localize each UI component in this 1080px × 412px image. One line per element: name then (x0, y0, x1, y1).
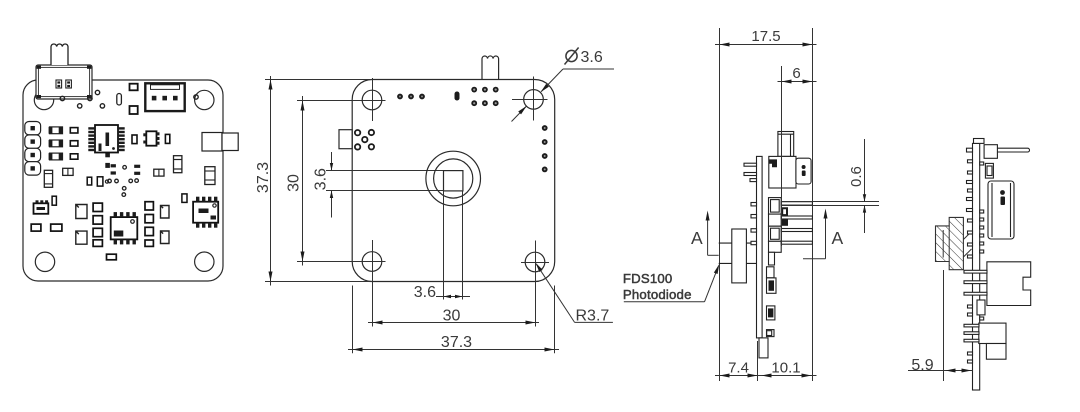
dim 3.6 vertical extension lines (326, 170, 444, 172)
open pad square 2 view1 (76, 231, 87, 244)
svg-text:7.4: 7.4 (728, 360, 749, 377)
jst housing glyphs view4 (1000, 190, 1005, 195)
dimension 30 left (286, 96, 305, 266)
passive row 1 view1 (49, 127, 78, 134)
small oval pad view2 (455, 92, 460, 101)
cap pair left view1 (63, 168, 73, 175)
mid housing with notch view4 (987, 262, 1031, 306)
svg-text:3.6: 3.6 (581, 49, 603, 66)
small rect on board view4 (977, 300, 985, 315)
extension line 6 dim overlay (781, 120, 783, 246)
svg-text:37.3: 37.3 (441, 334, 472, 351)
section arrow A left (691, 211, 719, 256)
pcb board edge-on view3 (757, 156, 763, 338)
mounting hole bottom-right view1 (195, 252, 214, 271)
svg-text:10.1: 10.1 (771, 360, 800, 377)
mounting hole bottom-left view1 (35, 252, 54, 271)
jst pin hook dark view3 (769, 159, 777, 167)
header stack square 2 view3 (769, 214, 782, 226)
passive column mid view1 (93, 203, 102, 246)
header pin 3 view3 (781, 229, 812, 232)
mounting hole top-left view1 (34, 90, 53, 109)
SOIC8 U4 view1 (193, 197, 218, 228)
SOT-23-5 U2 view1 (143, 131, 159, 145)
dimension 37.3 left (255, 76, 273, 286)
via column right view2 (542, 125, 548, 172)
svg-text:3.6: 3.6 (414, 284, 436, 301)
top pin base block view4 (984, 145, 997, 159)
switch body right part view3 (796, 158, 811, 184)
passive row 3 view1 (49, 153, 78, 160)
caps near top edge view1 (130, 84, 138, 114)
dimension 5.9 (908, 270, 973, 381)
svg-text:A: A (691, 228, 703, 248)
bottom pins view4 (964, 324, 979, 327)
via row of 3 view2 (397, 94, 425, 100)
switch inner pads view1 (56, 80, 71, 88)
right vertical cap view1 (205, 167, 215, 185)
small vertical caps view1 (87, 177, 108, 186)
dimension 7.4 (715, 360, 762, 378)
left pins top view4 (967, 181, 973, 184)
big IC U1 view1 (88, 125, 124, 153)
extension line right 17.5/6/10.1 (812, 28, 814, 381)
vertical cap view1 (174, 156, 182, 173)
top pin right view4 (985, 148, 1030, 152)
svg-text:0.6: 0.6 (848, 166, 865, 187)
component right face 3 view3 (767, 306, 775, 320)
header stack square 1 view3 (769, 198, 782, 215)
jst housing side view4 (988, 181, 1014, 239)
dim 3.6 bottom extension lines (443, 191, 445, 300)
R3.7 label leader (534, 262, 613, 325)
scattered small pads center view1 (111, 164, 141, 175)
svg-text:Photodiode: Photodiode (623, 287, 692, 302)
oval pad view1 (117, 94, 122, 106)
diameter 3.6 label leader (512, 48, 615, 122)
svg-text:17.5: 17.5 (751, 28, 780, 45)
dimension 30 bottom (368, 308, 539, 325)
svg-text:3.6: 3.6 (313, 168, 330, 190)
header pin stubs left view3 (751, 203, 757, 206)
caps below Q1 view1 (31, 224, 62, 231)
small vert pad right view1 (182, 194, 187, 203)
header stack square 4 view3 (769, 241, 782, 252)
4-pin header left edge view1 (25, 122, 41, 176)
header dark hook 2 view3 (781, 219, 788, 226)
open pad square 3 view1 (161, 206, 170, 219)
header stack square 3 view3 (769, 226, 782, 241)
pcb board edge-on view4 (973, 143, 980, 390)
dim 30 left extension lines (297, 100, 386, 102)
photodiode circles center view2 (426, 151, 481, 206)
section arrow A right (803, 209, 844, 259)
pads along board left face view4 (968, 160, 973, 363)
dimension 3.6 left (313, 152, 334, 218)
vias near switch view1 (60, 90, 198, 108)
dimension 0.6 (782, 139, 880, 233)
photodiode sectioned hatched view4 (936, 217, 964, 269)
photodiode active-area square view2 (444, 171, 463, 191)
FDS100 Photodiode label (623, 263, 721, 302)
component right face 1 view3 (767, 267, 775, 278)
small vert pad view1 (52, 196, 56, 205)
photodiode lead lines view3 (719, 242, 757, 244)
svg-text:R3.7: R3.7 (576, 308, 610, 325)
mounting hole top-right view1 (195, 90, 214, 109)
mid through pins view4 (964, 270, 987, 273)
bottom block view4 (979, 323, 1006, 343)
passive column right view1 (145, 202, 153, 247)
dimension 6 (778, 65, 817, 84)
dim 37.3 left extension lines (265, 79, 372, 81)
component right face 4 view3 (767, 330, 775, 337)
slide switch SW1 body view1 (36, 65, 92, 99)
photodiode can view3 (732, 229, 747, 283)
header pin 2 view3 (781, 216, 812, 219)
extension line 7.4/10.1 middle (757, 341, 759, 381)
right edge connector view1 (202, 133, 238, 152)
mounting hole top-left view2 (362, 78, 382, 121)
small cap view1 (132, 135, 137, 144)
via grid 2x3 view2 (471, 87, 498, 106)
header pin 1 view3 (781, 202, 812, 205)
dimension 17.5 (715, 28, 817, 47)
svg-text:6: 6 (792, 65, 800, 82)
dimension 37.3 bottom (348, 286, 559, 354)
block below header view3 (769, 252, 775, 265)
mounting hole bottom-right view2 (521, 241, 549, 327)
svg-text:30: 30 (443, 308, 461, 325)
slide switch lever view1 (51, 44, 68, 65)
passive row 2 view1 (49, 140, 78, 147)
tall cap left view1 (44, 170, 52, 187)
photodiode lead marks view4 (963, 232, 971, 240)
open pad square 1 view1 (76, 205, 87, 219)
open pad square 4 view1 (161, 231, 170, 244)
svg-text:A: A (832, 228, 844, 248)
mounting hole bottom-left view2 (358, 240, 386, 327)
JST connector J1 view1 (145, 83, 184, 111)
via cluster quincunx view2 (355, 130, 374, 150)
small cap right of U2 view1 (165, 134, 169, 143)
left edge connector protrusion view2 (339, 130, 352, 149)
dimension 3.6 bottom (414, 284, 470, 301)
bottom component view3 (759, 338, 768, 358)
mounting hole top-right view2 (512, 77, 548, 121)
board outline view1 (23, 80, 223, 281)
dimension 10.1 (758, 360, 817, 378)
small component below pin view4 (985, 163, 993, 178)
header pin 4 view3 (781, 241, 812, 244)
switch body view3 (769, 156, 796, 188)
component right face 2 view3 (767, 278, 777, 293)
jst pin stub left view3 (744, 163, 757, 166)
header dark hook 1 view3 (781, 207, 788, 216)
extension line left 17.5/7.4 (719, 28, 721, 381)
svg-text:FDS100: FDS100 (623, 271, 673, 286)
switch lever top view2 (482, 56, 499, 80)
svg-text:37.3: 37.3 (255, 162, 272, 193)
dark pads right of rows view1 (105, 153, 110, 168)
SOIC8 U3 view1 (111, 212, 138, 244)
SOT-23 Q1 view1 (34, 200, 49, 214)
horizontal cap view1 (154, 169, 164, 176)
board top cap view4 (974, 139, 985, 144)
svg-text:5.9: 5.9 (911, 357, 933, 374)
svg-text:30: 30 (286, 174, 303, 192)
extension line 6 dim (781, 66, 783, 246)
board outline view2 (352, 80, 555, 282)
switch lever view3 (778, 132, 794, 157)
pads along board right face view4 (980, 162, 984, 320)
bottom small cap view1 (107, 254, 117, 260)
top pin left stub view4 (967, 148, 973, 152)
via rings center view1 (108, 166, 139, 197)
